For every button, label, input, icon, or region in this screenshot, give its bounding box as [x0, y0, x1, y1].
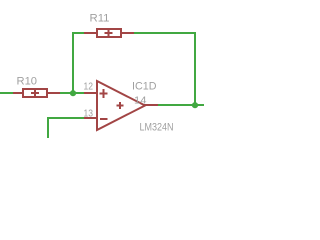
wire vertical right feedback — [194, 32, 196, 105]
pin 13 lead — [84, 117, 97, 119]
wire R10 right to junction — [60, 92, 74, 94]
plus input marker — [100, 93, 108, 95]
svg-text:12: 12 — [84, 82, 94, 93]
op-amp IC1D — [84, 81, 158, 130]
wire output to right edge — [158, 104, 204, 106]
op-amp triangle body — [97, 81, 145, 130]
svg-text:LM324N: LM324N — [140, 122, 174, 134]
svg-text:14: 14 — [134, 96, 147, 107]
pin 12 lead — [84, 92, 97, 94]
resistor R11 — [84, 29, 134, 37]
pin 14 output lead — [144, 104, 158, 106]
svg-text:R11: R11 — [90, 13, 110, 25]
wire junction to op-amp pin 12 — [74, 92, 84, 94]
wire R11 right to top-right corner — [134, 32, 196, 34]
wire vertical left feedback — [72, 32, 74, 94]
wire net to R10 left — [0, 92, 13, 94]
svg-text:R10: R10 — [17, 76, 38, 88]
junction node at output — [192, 102, 198, 108]
resistor R10 — [13, 89, 60, 97]
junction node at R10/feedback — [70, 90, 76, 96]
svg-text:13: 13 — [84, 109, 94, 120]
wire vertical down to bottom edge — [47, 117, 49, 138]
wire top left to R11 — [72, 32, 84, 34]
svg-text:IC1D: IC1D — [132, 81, 157, 93]
minus input marker — [100, 118, 108, 120]
wire op-amp pin 13 to left — [47, 117, 84, 119]
origin cross — [117, 105, 124, 107]
